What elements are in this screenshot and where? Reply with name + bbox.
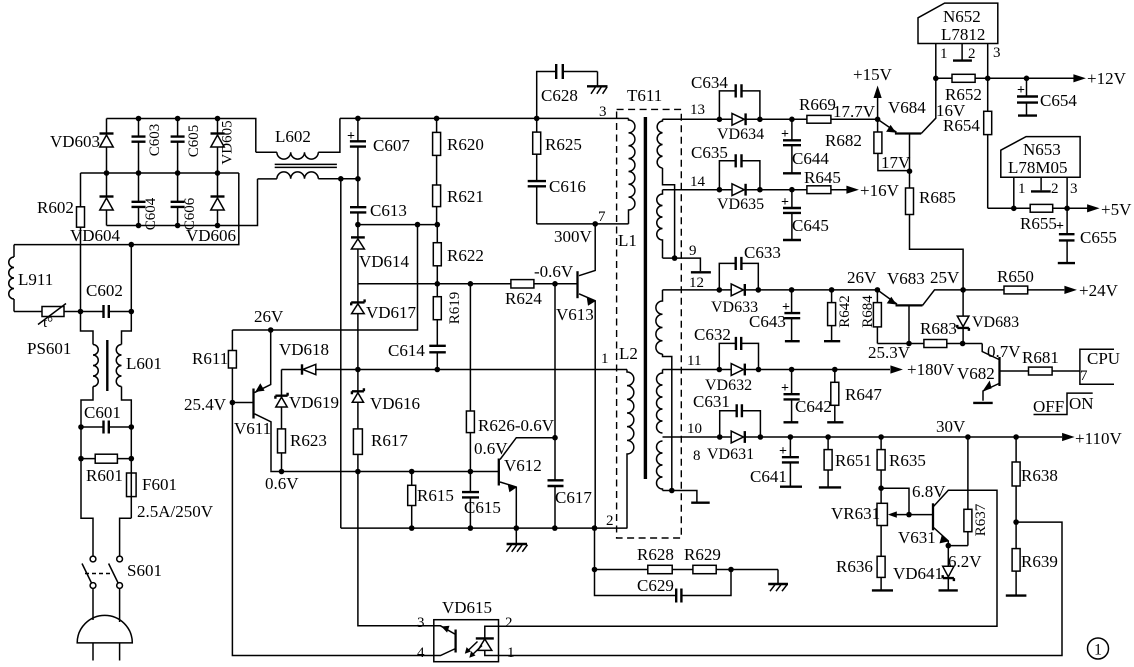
svg-text:C628: C628 bbox=[541, 86, 578, 105]
svg-text:T611: T611 bbox=[627, 86, 662, 105]
wire L601 bottom leads bbox=[81, 387, 131, 474]
svg-text:25V: 25V bbox=[930, 268, 960, 287]
svg-text:R685: R685 bbox=[919, 188, 956, 207]
svg-text:VD615: VD615 bbox=[442, 598, 492, 617]
svg-text:10: 10 bbox=[687, 421, 702, 437]
transistor V682 (NPN) bbox=[982, 344, 999, 360]
svg-text:R623: R623 bbox=[290, 431, 327, 450]
svg-text:C643: C643 bbox=[749, 312, 786, 331]
svg-text:R602: R602 bbox=[37, 198, 74, 217]
resistor R617 bbox=[353, 429, 362, 455]
resistor R669 bbox=[807, 115, 831, 123]
capacitor C655 bbox=[1066, 208, 1068, 262]
wire pin13 line bbox=[663, 118, 878, 120]
svg-text:C615: C615 bbox=[464, 498, 501, 517]
wire pin7 line bbox=[537, 223, 629, 225]
wire C602 right riser bbox=[130, 245, 132, 312]
resistor R652 bbox=[952, 74, 975, 82]
wire winding C bottom long lead bbox=[663, 354, 672, 491]
svg-text:12: 12 bbox=[689, 275, 704, 291]
resistor R682 bbox=[878, 119, 910, 170]
resistor R635 bbox=[880, 437, 882, 503]
resistor R622 bbox=[436, 225, 438, 284]
capacitor C615 bbox=[469, 472, 471, 529]
capacitor C644 bbox=[791, 119, 793, 173]
svg-text:L78M05: L78M05 bbox=[1008, 158, 1068, 177]
diode VD634 bbox=[732, 113, 744, 125]
svg-text:R683: R683 bbox=[920, 319, 957, 338]
wire N652 pin2 + bar bbox=[961, 44, 963, 60]
svg-text:14: 14 bbox=[690, 174, 706, 190]
svg-text:V684: V684 bbox=[888, 98, 926, 117]
svg-text:C632: C632 bbox=[694, 325, 731, 344]
svg-text:PS601: PS601 bbox=[27, 339, 71, 358]
wire opto pin2 feedback line bbox=[499, 490, 998, 626]
capacitor C616 bbox=[528, 181, 546, 186]
capacitor C631 bbox=[720, 411, 761, 437]
svg-text:R621: R621 bbox=[447, 187, 484, 206]
svg-text:L911: L911 bbox=[18, 270, 53, 289]
optocoupler light arrows bbox=[466, 642, 482, 657]
svg-text:VD634: VD634 bbox=[717, 126, 764, 143]
svg-text:+: + bbox=[779, 444, 787, 459]
svg-text:C654: C654 bbox=[1040, 91, 1077, 110]
fuse F601 bbox=[130, 473, 132, 518]
svg-text:R635: R635 bbox=[889, 451, 926, 470]
svg-text:R639: R639 bbox=[1021, 552, 1058, 571]
capacitor C628 bbox=[537, 72, 598, 119]
capacitor C601 bbox=[81, 426, 131, 428]
wire +5V rail bbox=[988, 207, 1088, 209]
svg-text:R638: R638 bbox=[1021, 466, 1058, 485]
svg-text:-0.6V: -0.6V bbox=[534, 262, 574, 281]
resistor R651 bbox=[827, 437, 829, 487]
svg-text:t°: t° bbox=[43, 315, 53, 331]
transformer T611 dashed box bbox=[617, 109, 682, 538]
capacitor C654 bbox=[1026, 78, 1028, 115]
wire 25.3V line bbox=[877, 343, 982, 345]
svg-text:C602: C602 bbox=[86, 281, 123, 300]
diode VD619 (zener) bbox=[281, 370, 283, 429]
svg-text:VD641: VD641 bbox=[893, 564, 943, 583]
svg-text:+: + bbox=[1056, 219, 1064, 234]
capacitor C642 bbox=[791, 370, 793, 423]
svg-text:N653: N653 bbox=[1023, 140, 1061, 159]
transformer T611 primary L2 bbox=[627, 370, 634, 529]
switch S601 bbox=[90, 556, 96, 562]
svg-text:C631: C631 bbox=[693, 392, 730, 411]
svg-text:VD614: VD614 bbox=[359, 252, 410, 271]
svg-text:C614: C614 bbox=[388, 341, 425, 360]
transistor V611 (PNP) bbox=[252, 389, 254, 419]
capacitor C614 bbox=[429, 346, 446, 353]
resistor R620 bbox=[436, 118, 438, 185]
svg-text:VD618: VD618 bbox=[279, 340, 329, 359]
wire main top rail bbox=[340, 117, 629, 119]
svg-text:17.7V: 17.7V bbox=[833, 102, 876, 121]
svg-text:+12V: +12V bbox=[1087, 69, 1127, 88]
node bottom rail junctions bbox=[136, 223, 142, 229]
svg-text:4: 4 bbox=[417, 645, 425, 661]
ground at C628 bbox=[597, 72, 599, 87]
svg-text:6.8V: 6.8V bbox=[912, 482, 946, 501]
transformer T611 secondary winding C (12-8) bbox=[656, 290, 663, 354]
svg-text:C613: C613 bbox=[370, 201, 407, 220]
svg-text:C633: C633 bbox=[744, 243, 781, 262]
svg-text:1: 1 bbox=[1094, 642, 1102, 659]
optocoupler VD615 box bbox=[434, 620, 499, 662]
svg-text:R650: R650 bbox=[997, 267, 1034, 286]
OFF/ON symbol bbox=[1034, 393, 1093, 414]
svg-text:+: + bbox=[781, 195, 789, 210]
diode VD618 bbox=[282, 369, 628, 371]
svg-text:R615: R615 bbox=[417, 486, 454, 505]
transformer T611 primary L1 bbox=[629, 118, 635, 223]
resistor R684 bbox=[876, 290, 878, 344]
wire R628 line bbox=[595, 569, 779, 571]
wire opto pin3 line from 0.6V node bbox=[358, 472, 434, 626]
+110V arrow bbox=[1062, 433, 1075, 441]
capacitor C606 bbox=[177, 173, 179, 226]
svg-text:VR631: VR631 bbox=[831, 504, 880, 523]
svg-text:S601: S601 bbox=[127, 561, 162, 580]
svg-text:C655: C655 bbox=[1080, 228, 1117, 247]
resistor R602 bbox=[80, 173, 82, 312]
diode VD603 bbox=[106, 119, 108, 174]
capacitor C643 bbox=[791, 290, 793, 341]
svg-text:R655: R655 bbox=[1020, 214, 1057, 233]
svg-text:+: + bbox=[781, 381, 789, 396]
svg-text:V613: V613 bbox=[556, 305, 594, 324]
transformer T611 core bbox=[644, 117, 647, 479]
node C602 right junction bbox=[129, 309, 135, 315]
+15V arrow bbox=[877, 97, 879, 119]
svg-text:R684: R684 bbox=[860, 295, 876, 328]
capacitor C607 bbox=[357, 118, 359, 178]
resistor R625 bbox=[536, 118, 538, 181]
resistor R639 bbox=[1012, 549, 1020, 572]
capacitor C613 bbox=[357, 179, 359, 225]
svg-text:3: 3 bbox=[417, 615, 425, 631]
resistor R619 bbox=[436, 284, 438, 346]
capacitor C645 bbox=[791, 190, 793, 240]
inductor L911 bbox=[13, 245, 15, 312]
capacitor C605 bbox=[177, 119, 179, 174]
svg-text:C605: C605 bbox=[186, 125, 202, 158]
IC N652 L7812 bbox=[918, 3, 998, 43]
thermistor PS601 bbox=[14, 311, 81, 313]
svg-text:R617: R617 bbox=[371, 431, 408, 450]
svg-text:VD617: VD617 bbox=[366, 303, 417, 322]
potentiometer VR631 bbox=[877, 503, 887, 525]
capacitor C629 bbox=[595, 570, 732, 596]
+24V line and arrow bbox=[963, 289, 1004, 291]
svg-text:C616: C616 bbox=[549, 177, 586, 196]
svg-text:1: 1 bbox=[1018, 181, 1026, 197]
svg-text:11: 11 bbox=[687, 353, 701, 369]
wire winding A bottom lead to pin9 bbox=[663, 168, 675, 258]
svg-text:R624: R624 bbox=[505, 289, 542, 308]
svg-text:V631: V631 bbox=[898, 528, 936, 547]
wire L2 pin2 down / R628 tap bbox=[594, 528, 596, 569]
svg-text:1: 1 bbox=[601, 351, 609, 367]
svg-text:3: 3 bbox=[599, 104, 607, 120]
svg-text:R619: R619 bbox=[447, 292, 463, 325]
svg-text:C644: C644 bbox=[792, 149, 829, 168]
resistor R636 bbox=[880, 526, 882, 591]
diode VD604 bbox=[106, 173, 108, 226]
transistor V612 (NPN) bbox=[498, 459, 500, 486]
svg-text:VD603: VD603 bbox=[50, 132, 100, 151]
wire line A to L911 bbox=[14, 173, 239, 245]
svg-text:VD631: VD631 bbox=[707, 446, 754, 463]
svg-text:R669: R669 bbox=[799, 95, 836, 114]
svg-text:+: + bbox=[347, 129, 355, 144]
svg-text:L7812: L7812 bbox=[941, 25, 985, 44]
svg-text:+15V: +15V bbox=[853, 65, 893, 84]
svg-text:300V: 300V bbox=[554, 227, 593, 246]
transformer L601 right winding bbox=[116, 345, 121, 387]
resistor R615 bbox=[411, 472, 413, 529]
svg-text:R620: R620 bbox=[447, 135, 484, 154]
capacitor C604 bbox=[138, 173, 140, 226]
svg-text:2: 2 bbox=[968, 46, 976, 62]
page link circle 1 bbox=[1088, 638, 1109, 659]
+5V arrow bbox=[1087, 204, 1100, 212]
resistor R655 bbox=[1030, 204, 1053, 212]
CPU bracket bbox=[1080, 349, 1114, 384]
resistor R645 bbox=[807, 186, 831, 194]
optocoupler phototransistor bbox=[454, 630, 456, 653]
wire N653 pin3 bbox=[1066, 177, 1068, 208]
wire pin 8 bottom lead and bar bbox=[663, 491, 697, 502]
diode VD614 bbox=[357, 225, 359, 284]
svg-text:R645: R645 bbox=[804, 168, 841, 187]
svg-text:R651: R651 bbox=[835, 451, 872, 470]
svg-text:2.5A/250V: 2.5A/250V bbox=[137, 502, 214, 521]
wire top rail of bridge bbox=[107, 119, 256, 153]
svg-text:3: 3 bbox=[1070, 181, 1078, 197]
wire L601 top leads bbox=[81, 312, 132, 345]
diode VD641 (zener) bbox=[947, 546, 949, 567]
svg-text:C635: C635 bbox=[691, 143, 728, 162]
wire L602 lower out bbox=[318, 178, 358, 180]
svg-text:9: 9 bbox=[689, 243, 697, 259]
svg-text:R611: R611 bbox=[192, 349, 228, 368]
svg-text:VD635: VD635 bbox=[717, 196, 764, 213]
transformer T611 secondary winding B (14-9) bbox=[657, 190, 663, 258]
svg-text:R629: R629 bbox=[684, 545, 721, 564]
svg-text:17V: 17V bbox=[881, 153, 911, 172]
wire primary bottom rail bbox=[341, 527, 628, 529]
transistor V613 (NPN) bbox=[576, 271, 578, 298]
node mid rail junctions bbox=[104, 170, 110, 176]
inductor L602 lower winding bbox=[258, 178, 277, 180]
wire bottom rail of bridge bbox=[107, 179, 258, 226]
svg-text:C634: C634 bbox=[691, 73, 728, 92]
node PS601/R602 junction bbox=[78, 309, 84, 315]
svg-text:R637: R637 bbox=[973, 503, 989, 536]
resistor R637 bbox=[964, 509, 972, 531]
resistor R683 bbox=[924, 340, 947, 348]
svg-text:L601: L601 bbox=[126, 354, 162, 373]
svg-text:+: + bbox=[1017, 83, 1025, 98]
svg-text:C617: C617 bbox=[555, 488, 592, 507]
svg-text:VD605: VD605 bbox=[219, 120, 235, 164]
svg-text:+5V: +5V bbox=[1101, 200, 1132, 219]
wire pin12 26V line bbox=[663, 289, 878, 291]
svg-text:R622: R622 bbox=[447, 246, 484, 265]
capacitor C632 bbox=[719, 343, 758, 369]
wire primary negative rail bbox=[340, 179, 342, 528]
svg-text:VD683: VD683 bbox=[972, 314, 1019, 331]
svg-text:R642: R642 bbox=[837, 295, 853, 328]
resistor R601 bbox=[81, 458, 131, 460]
wire mid rail of bridge bbox=[81, 172, 239, 174]
transistor V684 (PNP) bbox=[895, 132, 921, 134]
capacitor C633 bbox=[719, 263, 758, 290]
svg-text:2: 2 bbox=[505, 615, 513, 631]
diode VD683 (zener) bbox=[960, 287, 966, 293]
svg-text:30V: 30V bbox=[936, 417, 966, 436]
capacitor C634 bbox=[719, 91, 760, 119]
svg-text:R625: R625 bbox=[545, 135, 582, 154]
diode VD631 bbox=[731, 431, 743, 443]
svg-text:+24V: +24V bbox=[1079, 281, 1119, 300]
capacitor C602 bbox=[81, 311, 132, 313]
svg-text:N652: N652 bbox=[943, 7, 981, 26]
resistor R638 bbox=[1015, 437, 1017, 549]
svg-text:26V: 26V bbox=[254, 307, 284, 326]
resistor R624 bbox=[511, 280, 534, 288]
svg-text:C629: C629 bbox=[637, 576, 674, 595]
svg-text:+16V: +16V bbox=[860, 181, 900, 200]
svg-text:OFF: OFF bbox=[1033, 397, 1064, 416]
resistor R628 bbox=[648, 565, 672, 573]
resistor R654 bbox=[987, 78, 989, 208]
transformer T611 secondary winding A (13-14) bbox=[657, 119, 662, 168]
wire 30V column to collector node bbox=[967, 437, 969, 509]
node line A junction bbox=[129, 242, 135, 248]
svg-text:C601: C601 bbox=[84, 403, 121, 422]
svg-text:1: 1 bbox=[507, 645, 515, 661]
svg-text:R682: R682 bbox=[825, 131, 862, 150]
+12V arrow bbox=[1073, 74, 1086, 82]
wire C613 bottom link bbox=[358, 224, 437, 226]
svg-text:C603: C603 bbox=[147, 124, 163, 157]
diode VD606 bbox=[217, 173, 219, 226]
wire pin11 line bbox=[663, 369, 891, 371]
svg-text:V611: V611 bbox=[234, 419, 271, 438]
inductor L602 core bbox=[275, 164, 337, 167]
svg-text:+110V: +110V bbox=[1075, 429, 1122, 448]
svg-text:V682: V682 bbox=[957, 364, 995, 383]
svg-text:8: 8 bbox=[693, 448, 701, 464]
diode VD632 bbox=[731, 364, 743, 376]
svg-text:+: + bbox=[781, 127, 789, 142]
svg-text:R601: R601 bbox=[86, 466, 123, 485]
svg-text:VD604: VD604 bbox=[70, 226, 121, 245]
wire L602 upper out to top rail bbox=[318, 118, 340, 152]
wire pin 9 stub and bar bbox=[663, 258, 701, 271]
diode VD633 bbox=[731, 284, 743, 296]
wire R635/VR631 to wiper node bbox=[881, 488, 909, 514]
svg-text:R654: R654 bbox=[943, 116, 980, 135]
capacitor C603 bbox=[138, 119, 140, 174]
svg-text:C645: C645 bbox=[792, 216, 829, 235]
diode VD617 (zener) bbox=[357, 284, 359, 370]
svg-text:25.3V: 25.3V bbox=[868, 343, 911, 362]
svg-text:L1: L1 bbox=[618, 231, 637, 250]
inductor L602 upper winding bbox=[256, 151, 277, 153]
capacitor C641 bbox=[789, 437, 791, 486]
svg-text:0.6V: 0.6V bbox=[265, 474, 299, 493]
transformer L601 left winding bbox=[93, 345, 98, 387]
capacitor C617 bbox=[554, 284, 556, 528]
svg-text:F601: F601 bbox=[142, 475, 177, 494]
resistor R647 bbox=[834, 370, 836, 423]
svg-text:+180V: +180V bbox=[907, 360, 955, 379]
optocoupler LED bbox=[485, 626, 499, 655]
svg-text:R681: R681 bbox=[1022, 348, 1059, 367]
svg-text:L2: L2 bbox=[619, 344, 638, 363]
wire N652 pin1 bbox=[935, 44, 937, 79]
ground at R629 bbox=[777, 570, 779, 584]
IC N653 L78M05 bbox=[1001, 137, 1080, 178]
svg-text:C606: C606 bbox=[182, 197, 198, 230]
wire 0.6V rail bbox=[271, 470, 499, 473]
wire +12V rail bbox=[936, 77, 1074, 79]
diode VD605 bbox=[217, 119, 219, 174]
resistor R611 bbox=[231, 330, 233, 403]
svg-text:R628: R628 bbox=[637, 545, 674, 564]
wire plug leads bbox=[93, 588, 120, 622]
wire N653 pin2 + bar bbox=[1040, 177, 1042, 190]
wire opto pin1 feedback line bbox=[499, 522, 1063, 655]
svg-text:V683: V683 bbox=[887, 269, 925, 288]
svg-text:7: 7 bbox=[1080, 368, 1088, 384]
wire emitter 6.2V node bbox=[948, 545, 968, 547]
svg-text:CPU: CPU bbox=[1087, 349, 1120, 368]
wire pin10 line bbox=[663, 436, 1063, 438]
+16V arrow bbox=[846, 186, 859, 194]
svg-text:V612: V612 bbox=[504, 456, 542, 475]
svg-text:2: 2 bbox=[1051, 181, 1059, 197]
diode VD635 bbox=[732, 184, 744, 196]
wire N652 pin3 bbox=[987, 44, 989, 79]
AC plug bbox=[77, 615, 132, 643]
resistor R685 bbox=[910, 171, 964, 316]
svg-text:2: 2 bbox=[606, 513, 614, 529]
svg-text:R636: R636 bbox=[836, 557, 873, 576]
svg-text:C604: C604 bbox=[143, 197, 159, 230]
node top rail junctions bbox=[136, 116, 142, 122]
transistor V683 (PNP) bbox=[896, 304, 923, 306]
svg-text:C642: C642 bbox=[795, 397, 832, 416]
resistor R629 bbox=[693, 565, 716, 573]
wire opto pin4 line from 25.4V node bbox=[232, 403, 433, 656]
svg-text:R626-0.6V: R626-0.6V bbox=[478, 416, 555, 435]
svg-text:VD619: VD619 bbox=[289, 393, 339, 412]
svg-text:7: 7 bbox=[598, 209, 606, 225]
svg-text:L602: L602 bbox=[275, 127, 311, 146]
svg-text:3: 3 bbox=[993, 45, 1001, 61]
svg-text:ON: ON bbox=[1069, 394, 1094, 413]
resistor R681 bbox=[1029, 367, 1053, 375]
resistor R626 bbox=[469, 284, 471, 472]
svg-text:C607: C607 bbox=[373, 136, 410, 155]
resistor R621 bbox=[433, 185, 441, 207]
